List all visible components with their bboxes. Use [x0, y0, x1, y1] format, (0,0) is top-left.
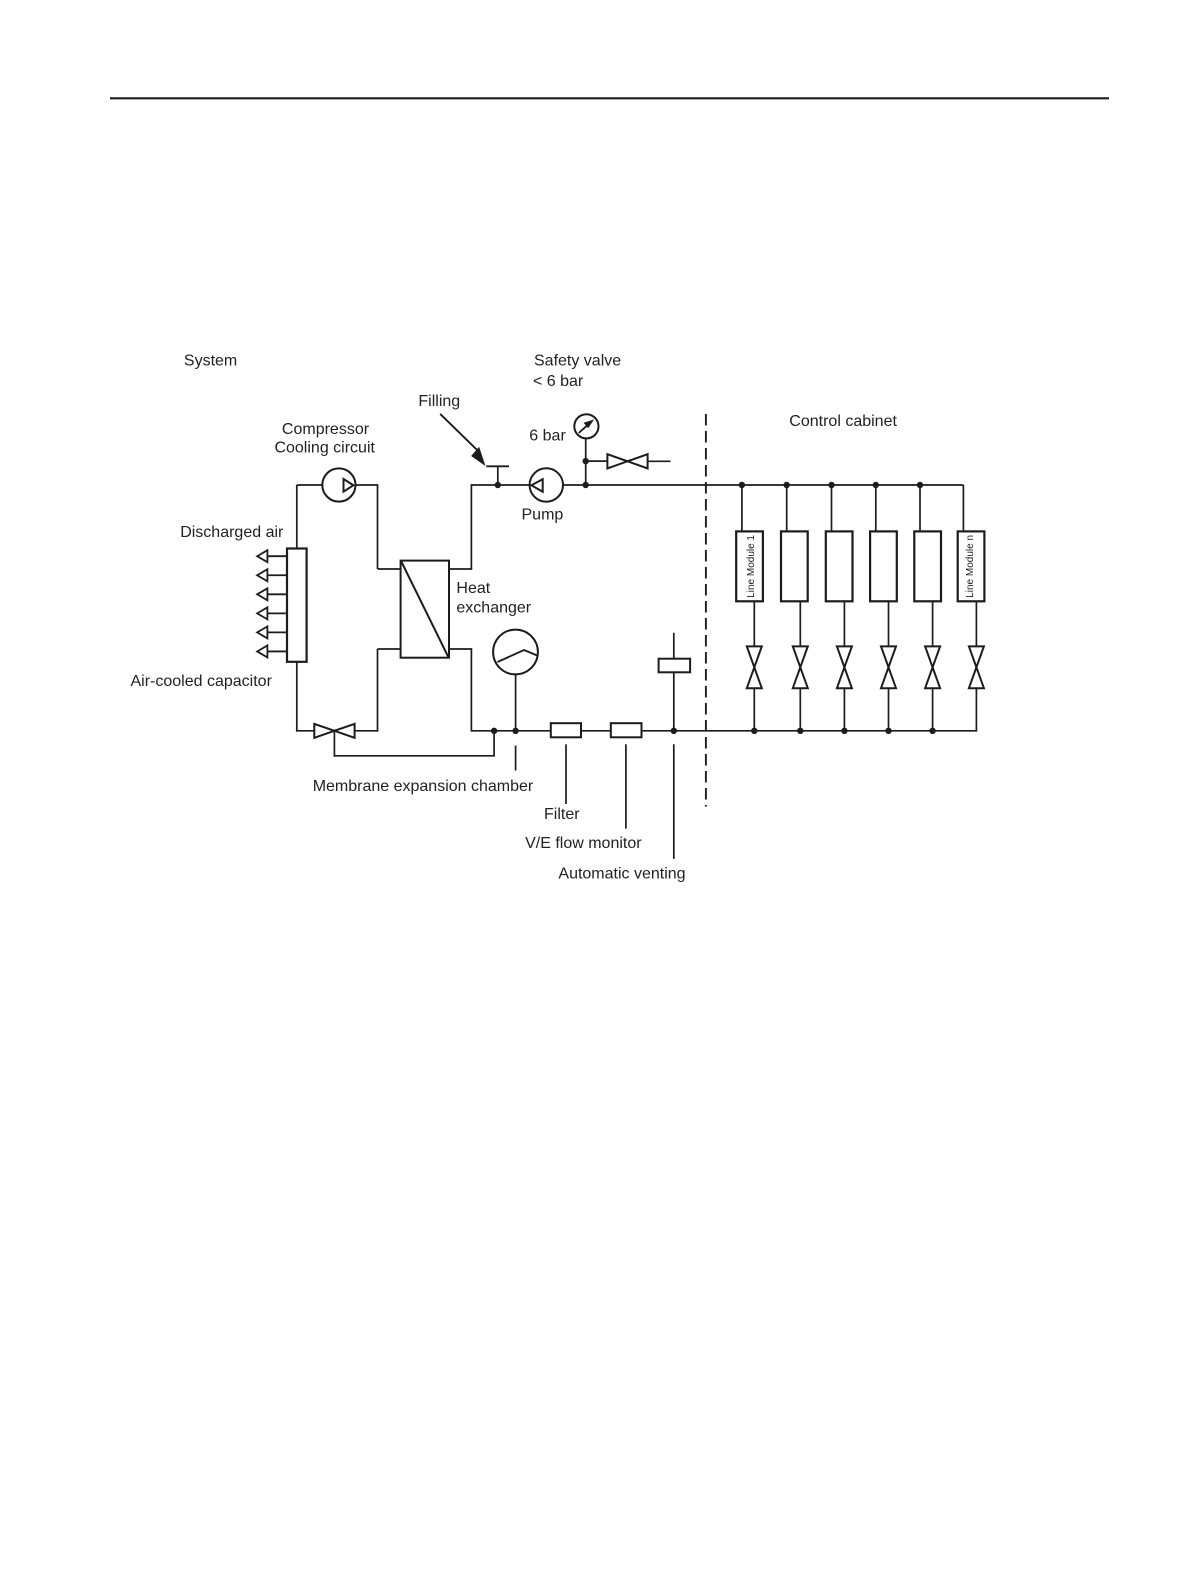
- pump: [530, 468, 563, 501]
- expansion valve: [314, 724, 334, 738]
- air-cooled capacitor body: [287, 549, 307, 662]
- svg-text:Membrane expansion chamber: Membrane expansion chamber: [313, 778, 534, 795]
- membrane chamber leader: [515, 746, 517, 771]
- automatic venting leader: [673, 744, 675, 859]
- filter: [551, 723, 581, 737]
- discharged air arrows: [267, 555, 287, 557]
- svg-text:Line Module n: Line Module n: [965, 535, 976, 598]
- line module 3 shut-off valve: [843, 601, 845, 646]
- svg-text:Filter: Filter: [544, 806, 580, 823]
- svg-text:Control cabinet: Control cabinet: [789, 413, 897, 430]
- wire compressor to heat exchanger: [356, 484, 379, 486]
- heat exchanger: [401, 561, 449, 658]
- line module n branch: [962, 485, 964, 531]
- pressure gauge 6 bar: [574, 414, 598, 438]
- compressor: [322, 468, 355, 501]
- wire heat exchanger bottom-right port: [449, 648, 472, 650]
- wire compressor to left leg: [297, 484, 323, 486]
- svg-text:Safety valve: Safety valve: [534, 353, 621, 370]
- wire left leg down to capacitor: [296, 485, 298, 550]
- line module 2 shut-off valve: [799, 601, 801, 646]
- filter leader: [565, 744, 567, 804]
- svg-text:Pump: Pump: [522, 507, 564, 524]
- svg-text:Line Module 1: Line Module 1: [746, 535, 757, 598]
- wire capacitor to bottom: [296, 662, 298, 732]
- svg-text:System: System: [184, 352, 237, 369]
- safety valve outlet: [648, 460, 671, 462]
- automatic venting riser: [673, 633, 675, 731]
- svg-text:Air-cooled capacitor: Air-cooled capacitor: [131, 673, 273, 690]
- svg-text:Automatic venting: Automatic venting: [558, 866, 685, 883]
- line module 2 branch: [786, 485, 788, 531]
- svg-text:V/E flow monitor: V/E flow monitor: [525, 835, 642, 852]
- svg-text:< 6 bar: < 6 bar: [533, 373, 584, 390]
- automatic venting body: [659, 659, 691, 673]
- main supply line: [471, 484, 963, 486]
- svg-text:Filling: Filling: [418, 393, 460, 410]
- svg-text:Heat: Heat: [456, 580, 490, 597]
- V/E flow monitor body: [611, 723, 642, 737]
- membrane expansion chamber: [493, 630, 538, 675]
- control cabinet dashed boundary: [705, 414, 707, 807]
- safety valve branch: [586, 460, 608, 462]
- line module 5 shut-off valve: [932, 601, 934, 646]
- svg-text:exchanger: exchanger: [456, 599, 531, 616]
- page header rule: [110, 97, 1109, 99]
- svg-text:Discharged air: Discharged air: [180, 524, 284, 541]
- pressure gauge riser: [585, 438, 587, 485]
- line module n shut-off valve: [975, 601, 977, 646]
- svg-text:Cooling circuit: Cooling circuit: [274, 439, 375, 456]
- line module 4 branch: [875, 485, 877, 531]
- wire heat exchanger bottom-left port: [378, 648, 401, 650]
- filling annotation arrow: [440, 414, 479, 453]
- line module 1 shut-off valve: [753, 601, 755, 646]
- line module 4 shut-off valve: [888, 601, 890, 646]
- svg-text:Compressor: Compressor: [282, 421, 370, 438]
- line module 5 branch: [919, 485, 921, 531]
- expansion valve bypass: [333, 731, 335, 757]
- V/E flow monitor leader: [625, 744, 627, 828]
- wire heat exchanger top-right port: [449, 568, 472, 570]
- wire valve to heat exchanger leg: [355, 730, 379, 732]
- svg-text:6 bar: 6 bar: [529, 428, 566, 445]
- filling connection: [497, 466, 499, 485]
- main return line: [471, 730, 976, 732]
- membrane chamber connection: [515, 674, 517, 730]
- line module 1 branch: [741, 485, 743, 531]
- line module 3 branch: [831, 485, 833, 531]
- safety valve: [607, 454, 627, 468]
